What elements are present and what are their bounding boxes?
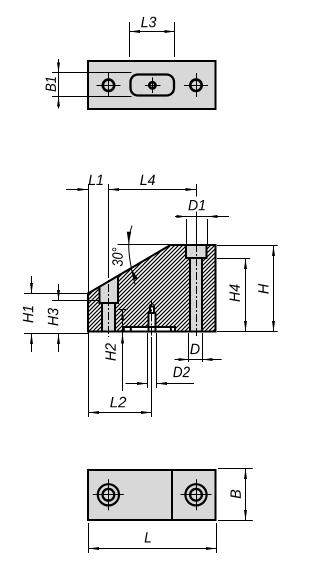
left counterbore xyxy=(99,276,120,304)
dimension L xyxy=(89,523,217,553)
left through hole xyxy=(102,304,115,331)
dimension D xyxy=(175,333,222,362)
dimension 30 degrees xyxy=(112,226,170,285)
centerline center hole xyxy=(151,300,153,418)
bottom extension line left xyxy=(24,333,88,335)
bottom view right hole xyxy=(181,479,212,510)
top view right hole xyxy=(184,73,208,97)
section body xyxy=(88,245,216,332)
right counterbore xyxy=(185,246,208,259)
dimension D1 xyxy=(175,200,229,244)
bottom view divider xyxy=(171,470,173,520)
dimension D2 xyxy=(126,333,195,388)
extension line left edge xyxy=(88,184,90,417)
right through hole xyxy=(190,259,202,331)
dimension L3 xyxy=(130,17,176,57)
bottom view left hole xyxy=(93,479,124,510)
centerline left hole xyxy=(108,184,110,337)
dimension H xyxy=(217,246,278,332)
section outline xyxy=(88,245,216,332)
top view left hole xyxy=(97,73,121,97)
top view body xyxy=(88,61,216,109)
dimension L2 xyxy=(89,397,152,413)
bottom groove xyxy=(124,326,175,331)
dimension H2 xyxy=(105,310,127,392)
centerline right hole xyxy=(196,184,198,337)
center hole D2 xyxy=(148,304,156,333)
dimension H3 xyxy=(48,284,99,352)
top view slot center hole xyxy=(145,77,161,93)
top view slot xyxy=(131,75,175,96)
dimension H4 xyxy=(217,259,250,332)
dimension H1 xyxy=(23,276,88,352)
bottom view body xyxy=(88,470,216,520)
dimension B1 xyxy=(46,59,132,109)
dimension B xyxy=(218,469,253,521)
dimension L1 L4 xyxy=(66,175,196,190)
